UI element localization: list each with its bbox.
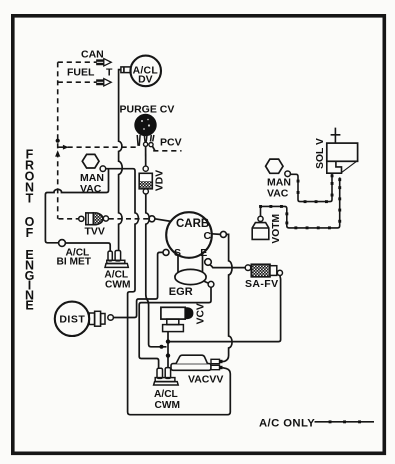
component A/CL CWM lower: prongs: [157, 368, 163, 378]
port MAN VAC left: [100, 166, 106, 172]
svg-text:VOTM: VOTM: [271, 214, 282, 244]
port TVV right: [103, 216, 108, 221]
port DIST: [108, 315, 114, 321]
port VDV top: [143, 166, 148, 171]
pin PURGE CV middle leg: [144, 135, 147, 142]
wire C port stub: [212, 233, 221, 236]
valve SA-FV body: [251, 264, 270, 277]
wire dashed branch to PURGE CV left port: [59, 146, 137, 148]
svg-text:VACVV: VACVV: [188, 373, 223, 385]
svg-text:CWM: CWM: [105, 279, 130, 290]
port CARB S: [163, 249, 169, 255]
svg-text:T: T: [106, 67, 113, 79]
svg-text:TVV: TVV: [85, 225, 105, 237]
svg-text:C: C: [204, 230, 212, 242]
wire A/C beaded: MAN VAC right to SOL V bracket bottom: [290, 174, 332, 202]
wire stub right leg to PCV dashes: [153, 146, 156, 151]
valve A/CL DV: [130, 56, 161, 87]
arrow up on dashed trunk: [55, 150, 60, 156]
port VDV bottom: [143, 189, 148, 194]
pin PURGE CV right leg: [151, 135, 154, 141]
valve TVV body: [86, 213, 94, 225]
solenoid SOL V bracket: [327, 161, 342, 173]
svg-text:VAC: VAC: [80, 183, 102, 195]
arrow CAN: [97, 59, 111, 66]
wire A/C beaded: VOTM to SOL V bracket right: [261, 177, 340, 228]
fitting MAN VAC left hexagon: [82, 154, 99, 168]
svg-text:VDV: VDV: [155, 170, 166, 191]
svg-text:T: T: [26, 191, 34, 205]
svg-text:VCV: VCV: [195, 303, 206, 324]
wire VDV down to VCV junction (hop at TVV dashes, jog at EGR lines): [146, 194, 167, 347]
valve VACVV dome: [176, 355, 208, 363]
wire A from A/CL DV down to A/CL CWM prong (hops): [119, 70, 123, 251]
wire SA-FV right port down and left to VCV junction: [170, 276, 281, 342]
port EGR: [204, 281, 209, 283]
carb base lines: [178, 254, 203, 273]
svg-text:A/CL: A/CL: [154, 389, 178, 400]
pin PURGE CV left leg: [137, 135, 140, 146]
svg-text:EGR: EGR: [169, 286, 193, 298]
wire C port down to VACVV upper nipple (hops over E-SAFV and VCV-SAFV wires): [223, 234, 233, 361]
svg-text:PCV: PCV: [160, 136, 182, 148]
arrow FUEL T: [97, 79, 111, 86]
svg-text:A/C ONLY: A/C ONLY: [259, 418, 315, 430]
port SA-FV right: [277, 270, 282, 275]
label FRONT OF ENGINE: [25, 147, 35, 312]
svg-text:SOL V: SOL V: [315, 138, 326, 169]
wire MAN VAC down-left to A/CL BI MET (hop over dashed trunk): [45, 169, 108, 243]
svg-text:E: E: [200, 247, 207, 259]
carburetor CARB body: [166, 212, 212, 258]
svg-text:E: E: [25, 298, 33, 312]
wire S port to DIST (down, left, down, left): [113, 252, 163, 317]
wire CARB left port stub: [155, 219, 171, 222]
wire dashed vertical trunk: [57, 62, 59, 219]
svg-text:CARB: CARB: [176, 218, 209, 230]
solenoid SOL V body: [327, 143, 358, 161]
port circle under right leg: [149, 143, 153, 147]
svg-text:F: F: [26, 226, 34, 240]
motor VOTM body: [252, 223, 269, 240]
svg-text:CWM: CWM: [155, 400, 180, 411]
distributor DIST: [55, 302, 89, 336]
component A/CL CWM upper: base: [107, 260, 125, 263]
wire PURGE CV middle leg to VDV: [145, 146, 147, 166]
port VOTM top: [258, 216, 263, 221]
valve VCV body: [161, 307, 185, 319]
wire B: MAN VAC right then down to bottom box, VACVV lower nipple: [106, 169, 231, 415]
port MAN VAC right: [285, 171, 291, 177]
fitting MAN VAC right hexagon: [266, 159, 283, 173]
port VACVV upper nipple: [211, 359, 220, 363]
svg-text:CAN: CAN: [81, 49, 104, 61]
wire dashed to FUEL T arrow: [58, 81, 97, 83]
hatch line SOL V: [342, 162, 357, 173]
wire dashed PCV: [153, 150, 181, 152]
wire EGR to lower A/CL CWM left prong: [139, 287, 211, 368]
arrow right on dashed branch: [63, 145, 69, 150]
svg-text:DV: DV: [138, 75, 153, 86]
wire E port to SA-FV left port: [210, 265, 245, 268]
wire BI MET to A/CL CWM left prong: [65, 243, 110, 251]
wire dashed trunk to TVV: [59, 218, 79, 220]
valve TVV left port: [79, 216, 84, 221]
wire VCV down to lower A/CL CWM right prong: [167, 332, 169, 368]
junction dot on dashed trunk: [56, 139, 60, 143]
port VACVV lower nipple: [211, 365, 220, 369]
component A/CL CWM lower: base: [155, 378, 175, 382]
valve VDV body: [139, 173, 152, 189]
port A/CL BI MET: [59, 240, 66, 247]
nipple of DIST: [89, 313, 94, 325]
EGR valve ellipse: [175, 269, 206, 284]
svg-text:FUEL: FUEL: [67, 67, 95, 79]
wire dashed to CAN arrow: [58, 61, 97, 63]
junction dot on VDV-VCV wire: [160, 345, 164, 349]
stand of VCV: [167, 319, 179, 325]
svg-text:BI MET: BI MET: [57, 257, 92, 268]
port CARB C: [220, 231, 226, 237]
svg-text:DIST: DIST: [59, 314, 85, 326]
valve VACVV base: [171, 364, 211, 371]
wire dashed TVV to CARB left port: [109, 218, 149, 220]
port circle under middle leg: [144, 142, 148, 146]
solenoid SOL V plus terminal: [331, 128, 341, 144]
svg-text:VAC: VAC: [267, 188, 289, 200]
port SA-FV left: [245, 265, 251, 271]
junction dots on VCV wire: [166, 339, 170, 343]
component A/CL CWM upper: prongs: [108, 251, 112, 261]
svg-text:SA-FV: SA-FV: [245, 278, 279, 290]
svg-text:PURGE CV: PURGE CV: [120, 103, 175, 115]
port CARB E: [205, 259, 212, 266]
port CARB left: [149, 216, 155, 222]
valve PURGE CV body: [134, 114, 156, 136]
nipple of A/CL DV: [121, 67, 131, 73]
